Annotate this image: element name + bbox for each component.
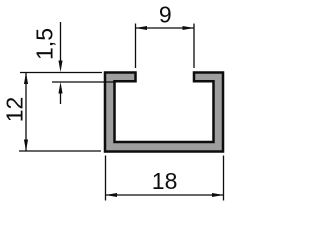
svg-text:1,5: 1,5	[31, 28, 57, 60]
svg-text:18: 18	[152, 168, 178, 194]
svg-text:9: 9	[159, 1, 172, 27]
svg-text:12: 12	[1, 97, 27, 123]
